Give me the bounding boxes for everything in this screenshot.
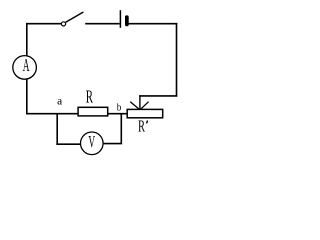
wire node b branch vertical xyxy=(120,113,122,144)
svg-text:b: b xyxy=(117,102,122,114)
wire horizontal to slider xyxy=(139,95,177,97)
wire between R and rheostat xyxy=(108,113,128,115)
rheostat R' body xyxy=(127,109,163,117)
ammeter A xyxy=(13,56,37,80)
wire left vertical upper (corner to ammeter top) xyxy=(26,23,28,56)
svg-text:R: R xyxy=(138,117,146,135)
wire left vertical lower (ammeter to bottom corner) xyxy=(26,79,28,114)
wire node a branch vertical xyxy=(56,113,58,145)
svg-text:R: R xyxy=(86,88,93,107)
wire voltmeter left horizontal xyxy=(56,143,80,145)
wire switch contact to battery xyxy=(85,23,119,25)
svg-text:A: A xyxy=(23,56,30,76)
svg-text:a: a xyxy=(57,94,63,107)
wire battery to top-right corner xyxy=(128,23,177,25)
wire voltmeter right horizontal xyxy=(104,143,123,145)
wire top-left horizontal (corner to switch) xyxy=(26,23,61,25)
resistor R body xyxy=(78,107,108,116)
svg-text:V: V xyxy=(88,132,95,151)
wire bottom left horizontal (corner to resistor R) xyxy=(26,113,78,115)
voltmeter V xyxy=(81,132,104,155)
wire right vertical xyxy=(176,23,178,97)
battery cell xyxy=(120,10,128,28)
slider arrow of rheostat xyxy=(130,95,148,109)
label R' xyxy=(138,117,148,135)
switch S (open) xyxy=(61,12,83,26)
